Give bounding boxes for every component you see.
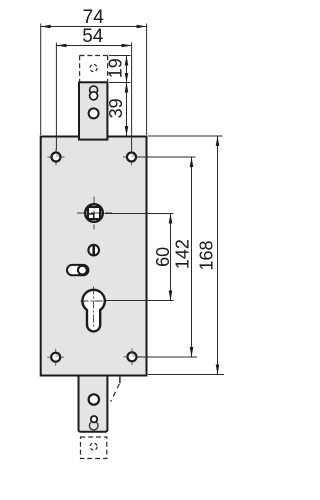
bottom tab big hole <box>89 394 99 404</box>
dimension 60 <box>105 214 174 301</box>
bottom tab small hole <box>91 416 97 422</box>
top tab extended position (dashed) <box>80 56 108 82</box>
svg-text:74: 74 <box>83 7 105 28</box>
bottom locking bar tab <box>79 370 108 432</box>
dashed hole in bottom extended tab <box>90 443 97 450</box>
slot step right of bottom tab <box>111 377 120 402</box>
bottom tab extended position (dashed) <box>81 437 107 459</box>
screw hole top-right <box>123 149 140 166</box>
svg-text:142: 142 <box>172 239 192 269</box>
screw hole bottom-left <box>47 349 64 366</box>
dimension 74 <box>41 24 147 136</box>
screw hole bottom-right <box>124 348 141 365</box>
dimension 19 / 39 <box>109 56 131 137</box>
euro profile cylinder hole <box>81 287 108 332</box>
top tab ghost hole arc <box>90 86 98 93</box>
top tab small hole <box>90 92 98 100</box>
lock case body <box>41 137 147 376</box>
dashed travel line <box>111 384 120 402</box>
svg-text:39: 39 <box>106 98 126 118</box>
spindle follower <box>77 197 112 230</box>
top tab big hole <box>89 108 99 118</box>
top locking bar tab <box>79 82 107 139</box>
svg-text:60: 60 <box>153 247 173 267</box>
screw in slot <box>78 266 87 275</box>
adjustment slot capsule <box>67 265 88 275</box>
dashed hole in extended tab <box>90 64 97 71</box>
dimension 168 <box>148 136 224 375</box>
screw hole top-left <box>48 149 65 166</box>
slotted adjuster screw <box>88 245 99 256</box>
svg-text:19: 19 <box>106 58 126 78</box>
dimension 54 <box>56 43 131 151</box>
bottom tab ghost hole arc <box>89 422 98 430</box>
svg-text:54: 54 <box>82 26 104 47</box>
dimension 142 <box>137 157 197 357</box>
svg-text:168: 168 <box>196 240 216 270</box>
